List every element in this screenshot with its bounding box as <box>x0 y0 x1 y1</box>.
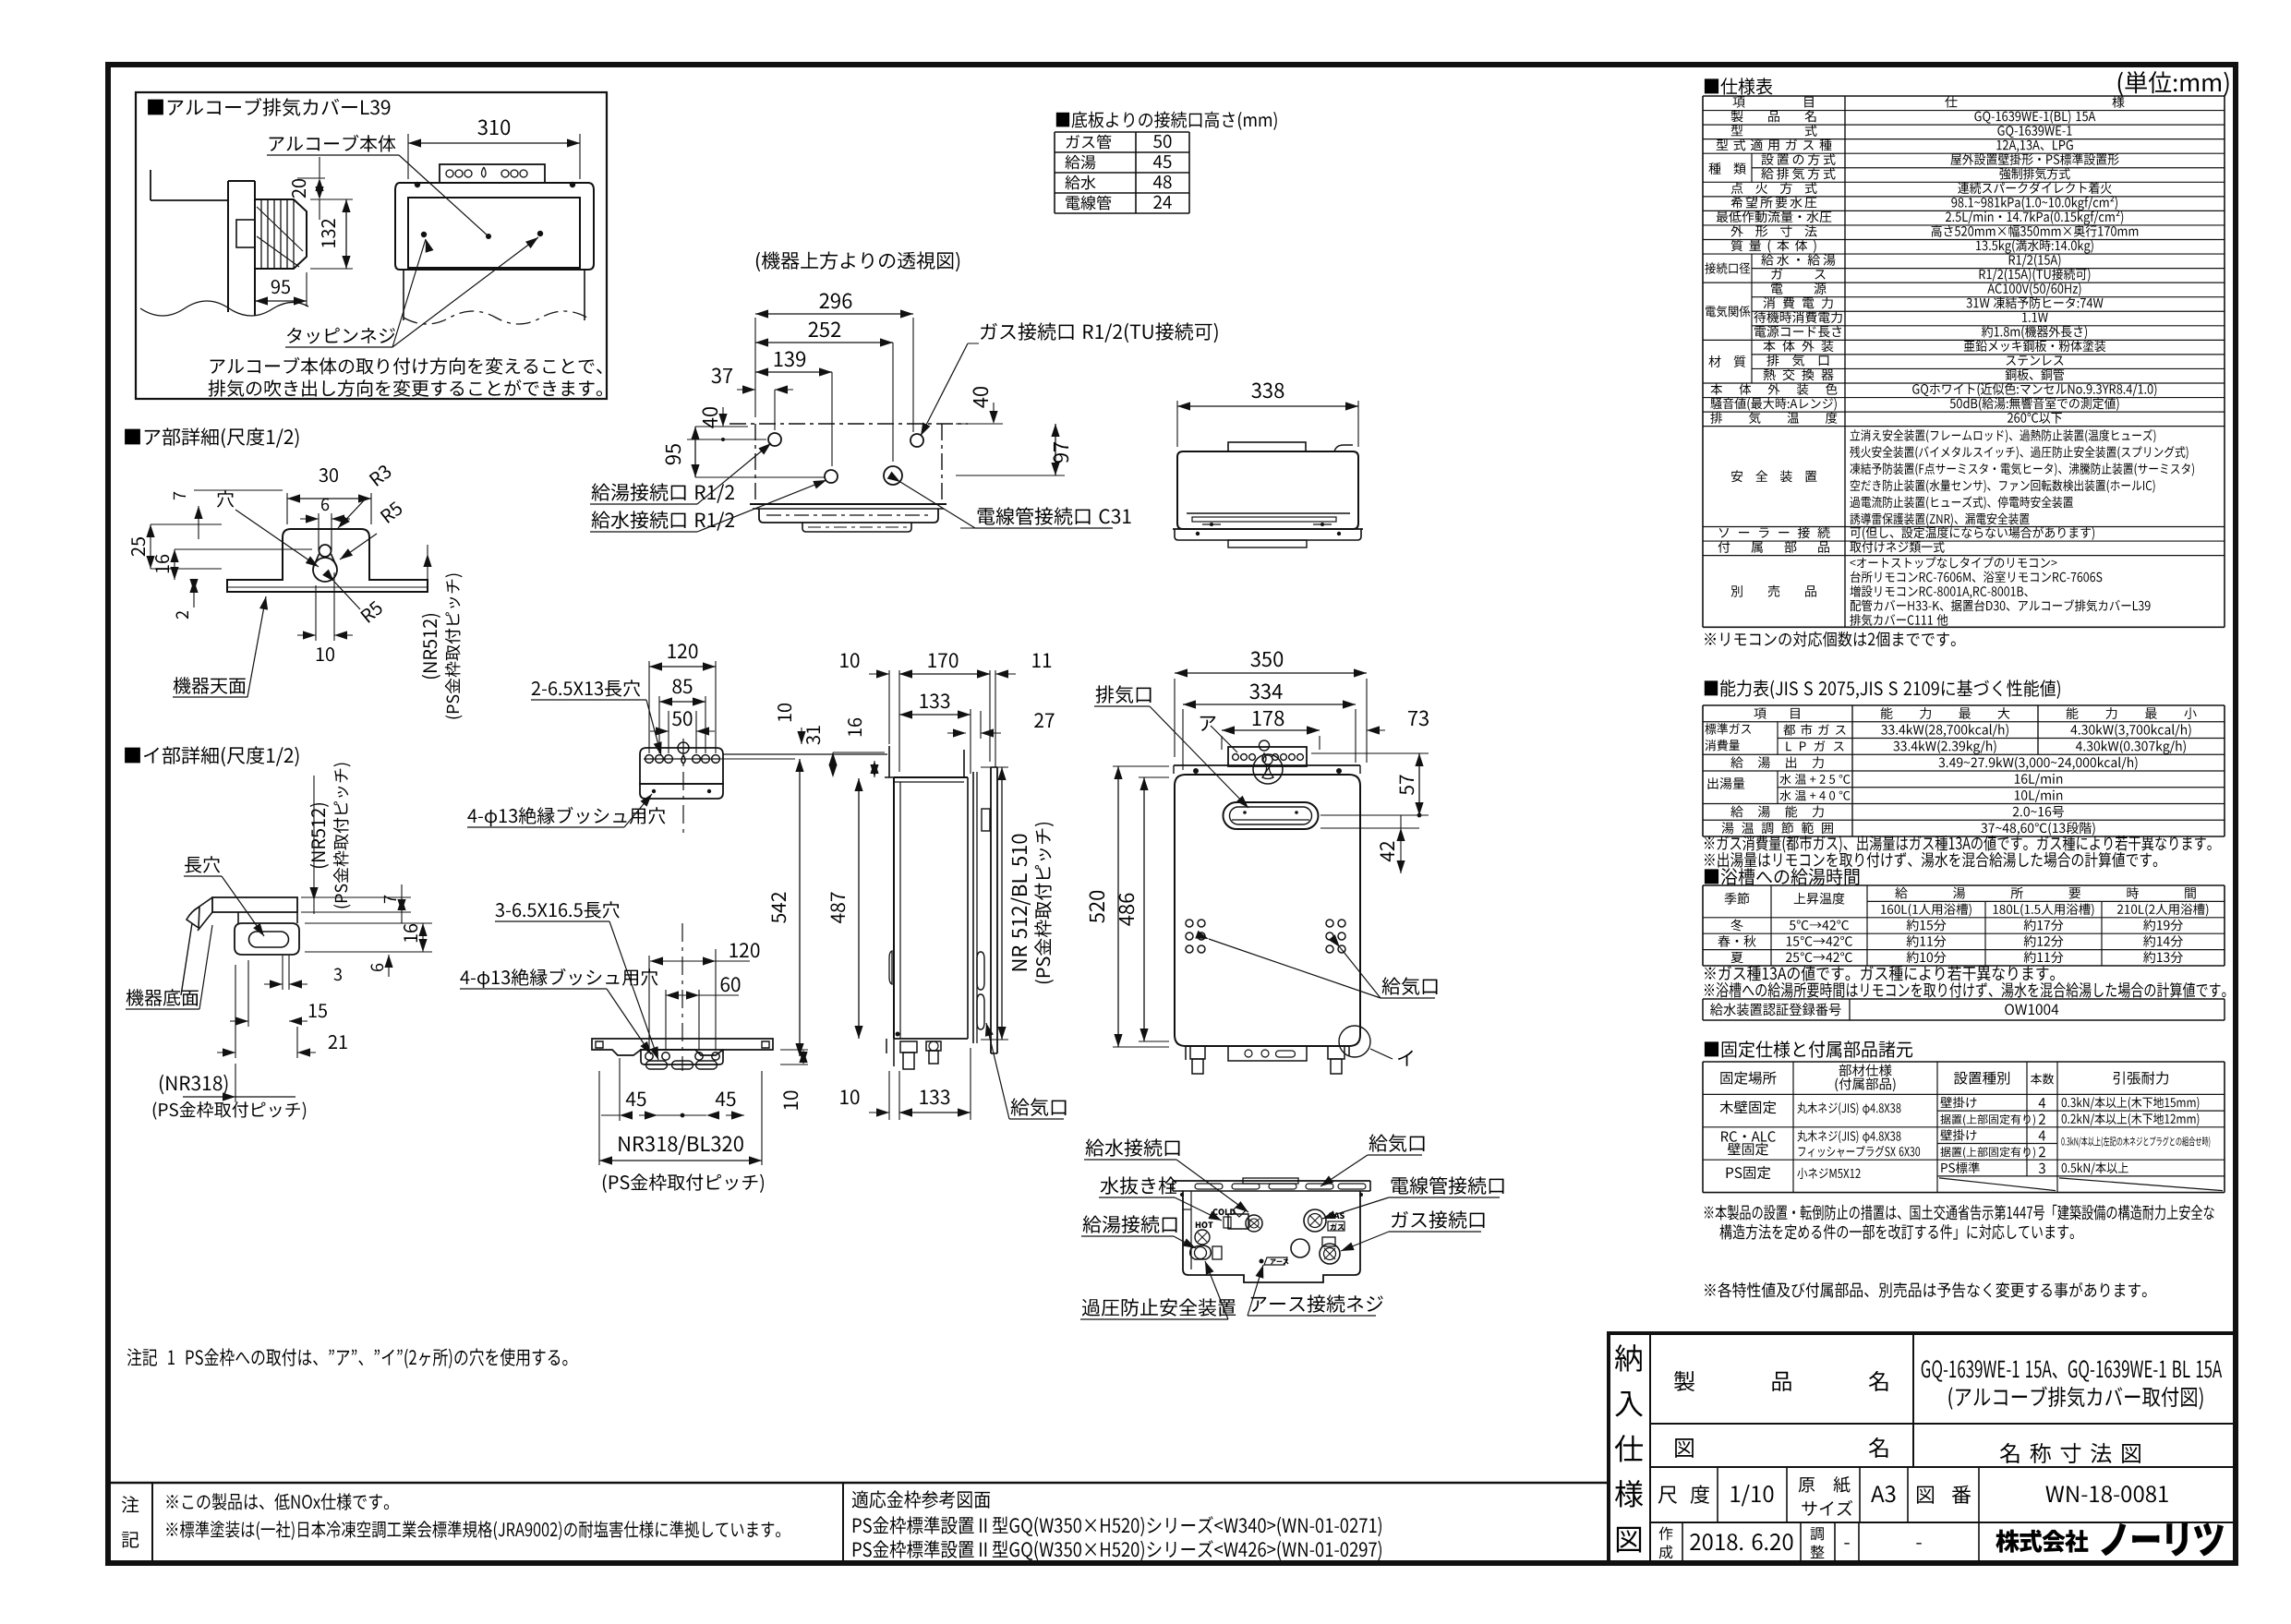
side view NR512 dim <box>981 766 1008 768</box>
dimension 11 side top <box>995 670 996 767</box>
bottom notes text <box>166 1493 389 1510</box>
dimension 45 left <box>619 1058 621 1121</box>
top view body <box>1177 451 1358 529</box>
front view top bracket <box>1228 747 1307 766</box>
dimension 42 <box>1320 827 1419 829</box>
frame reference box text <box>852 1490 990 1509</box>
fitting earth mark <box>1260 1259 1264 1264</box>
dimension 73 <box>1319 736 1320 750</box>
dimension 95 <box>254 272 256 307</box>
front view bottom fittings <box>1185 1046 1187 1060</box>
dimension 16 <box>155 555 169 572</box>
spec table remocon note <box>1705 632 1956 647</box>
title block drawing name <box>1675 1438 1694 1458</box>
note PS frame mounting <box>127 1348 568 1368</box>
fixing table title <box>1705 1041 1912 1057</box>
label hole <box>217 490 234 507</box>
Noritz logo <box>1996 1530 2088 1553</box>
detail B NR512 pitch note rotated <box>310 803 329 868</box>
label alcove body <box>270 135 396 152</box>
front view body <box>1175 775 1360 1046</box>
detail B slot <box>249 932 289 947</box>
dimension NR318/BL320 <box>598 1071 600 1165</box>
dimension 334 <box>1182 709 1184 770</box>
dimension 45 right <box>706 1111 719 1119</box>
label cold water port <box>592 511 734 530</box>
alcove front view body <box>395 183 594 270</box>
bath table <box>1703 884 2225 886</box>
label a mark <box>1200 716 1216 731</box>
bottom view body <box>1183 1191 1360 1282</box>
top view bottom lip <box>1187 512 1350 514</box>
alcove side-section wall lines <box>150 170 151 200</box>
dimension 133 side bottom <box>970 1048 971 1120</box>
label 4-phi13 bush hole lower <box>460 968 657 988</box>
upper bracket centerline <box>682 739 684 836</box>
dimension 133 side <box>970 709 971 774</box>
dimension 486 <box>1139 776 1169 778</box>
label R3 <box>368 463 392 487</box>
side view body <box>894 776 968 778</box>
detail A keyhole slot <box>313 545 337 582</box>
top view 338 dimension <box>1176 401 1178 447</box>
label R5 upper <box>380 501 404 523</box>
dimension 40 left <box>721 438 725 441</box>
side view top hook <box>885 746 894 777</box>
label conduit port <box>978 507 1131 524</box>
title block date row <box>1682 1522 1683 1563</box>
lower bracket plate <box>592 1039 773 1055</box>
spec table <box>1703 95 2225 97</box>
side view flange slots <box>977 952 984 990</box>
hole water <box>825 470 838 483</box>
label 3-6.5X16.5 slot <box>496 901 620 918</box>
bottom view tab rect <box>1243 1178 1298 1184</box>
lower bracket centerline <box>681 923 683 1071</box>
title block scale row <box>1717 1467 1718 1522</box>
dimension 296 <box>754 318 756 417</box>
detail A NR512 pitch note <box>422 614 440 679</box>
unit mm note <box>2118 71 2229 96</box>
dimension 40 right <box>993 403 995 422</box>
title block frame <box>1609 1333 2236 1563</box>
detail B leader from wall <box>181 923 192 995</box>
fitting cold valve <box>1212 1209 1235 1215</box>
capacity table title <box>1705 680 2060 699</box>
dimension 16 side <box>870 761 878 774</box>
dimension 10 side bottom <box>888 1071 890 1120</box>
hole gas <box>910 434 923 447</box>
misc note <box>1705 1282 2147 1298</box>
hole hot water <box>768 433 781 446</box>
dimension 60 lower <box>665 990 667 1051</box>
dimension 30 <box>286 493 288 524</box>
alcove side-section wall body <box>227 181 229 312</box>
top view top tab <box>1228 442 1306 451</box>
label 2-6.5X13 slot <box>532 680 640 696</box>
upper bracket holes <box>644 758 720 760</box>
dimension 16 detail B <box>404 924 417 942</box>
upper bracket plate <box>640 748 723 784</box>
label gas port <box>981 322 1218 343</box>
title block product name <box>1674 1371 1694 1391</box>
top perspective outline dashdot <box>730 423 968 425</box>
dimension 7 <box>174 492 186 499</box>
label 4-phi13 bush hole upper <box>467 807 665 826</box>
dimension 7 detail B <box>384 896 396 903</box>
certification table <box>1703 998 2225 1000</box>
fitting hot valve <box>1196 1221 1213 1228</box>
bottom notes band <box>108 1482 1609 1485</box>
alcove side-section louver <box>255 199 307 269</box>
spec table title <box>1705 78 1773 94</box>
label R5 lower <box>360 600 383 623</box>
top perspective base plate <box>750 503 947 505</box>
fixing table crossed cells <box>1939 1178 2056 1191</box>
dimension 487 <box>858 778 860 1039</box>
dimension 252 <box>755 342 893 343</box>
dimension 3 <box>334 968 342 981</box>
dimension 10 <box>315 585 317 641</box>
dimension 6 <box>318 513 320 550</box>
bath notes <box>1705 966 2055 981</box>
label tapping screw <box>287 328 395 344</box>
capacity notes <box>1705 836 2212 853</box>
connection height table title <box>1056 112 1277 130</box>
alcove side-section break line <box>140 301 308 316</box>
dimension 37 <box>774 390 776 430</box>
fixing note <box>1705 1205 2214 1221</box>
bottom view labels <box>1086 1138 1180 1156</box>
fitting conduit hole <box>1291 1239 1309 1257</box>
front view top edge <box>1174 764 1360 766</box>
fitting gas cock <box>1304 1209 1326 1232</box>
dimension 120 lower <box>648 956 650 1051</box>
dimension 10 side top <box>888 670 890 744</box>
detail A title <box>125 427 298 448</box>
lower bracket slots <box>646 1061 668 1069</box>
front view air holes left <box>1186 920 1193 927</box>
bath table title <box>1705 868 1859 884</box>
detail A bracket profile <box>227 529 428 592</box>
label air intake front <box>1382 977 1438 995</box>
top view lower flange <box>1173 528 1363 530</box>
fixing table <box>1703 1061 2225 1063</box>
label i mark <box>1339 1026 1370 1057</box>
dimension NR318 <box>160 1075 228 1094</box>
dimension 10 rotated side left <box>778 704 791 721</box>
title block vertical label <box>1615 1344 1642 1371</box>
hole conduit <box>884 466 902 485</box>
side view wall flange <box>990 767 992 1053</box>
dimension 170 side top <box>989 670 991 762</box>
alcove front view break line <box>404 311 587 324</box>
alcove front view top bracket <box>440 164 545 183</box>
capacity table <box>1703 704 2225 706</box>
dimension 10 lower bracket <box>780 1049 808 1051</box>
dimension 21 <box>329 1035 347 1049</box>
dimension 310 <box>407 134 409 179</box>
detail B bracket <box>212 897 297 912</box>
dimension 120 upper <box>648 661 650 753</box>
dimension 97 right <box>956 475 1065 476</box>
front view exhaust pill <box>1224 802 1319 829</box>
front view air holes right <box>1326 920 1333 927</box>
dimension 132 <box>310 198 353 200</box>
fitting gas pipe <box>1322 1237 1335 1246</box>
detail B title <box>125 746 298 766</box>
dimension 57 <box>1311 752 1429 754</box>
bottom view top plate <box>1173 1180 1370 1182</box>
connection height table <box>1055 131 1189 133</box>
dimension 85 upper <box>658 696 660 753</box>
side view front slot <box>889 951 892 984</box>
dimension 50 upper <box>668 711 669 753</box>
alcove note text <box>211 357 602 375</box>
side view bottom pipes <box>894 1038 968 1040</box>
side view small latch <box>982 809 990 831</box>
dimension 20 <box>297 177 325 179</box>
dimension 139 <box>755 371 832 373</box>
label exhaust port <box>1096 685 1152 704</box>
alcove cover box title <box>148 98 390 116</box>
dimension 350 <box>1174 679 1176 757</box>
dimension 15 <box>309 1004 327 1017</box>
dimension 178 <box>1221 736 1223 750</box>
top perspective view label <box>756 251 959 271</box>
dimension 520 <box>1113 765 1169 767</box>
dimension 27 side <box>947 732 966 734</box>
label long hole <box>185 856 220 872</box>
dimension 31 side <box>833 752 885 753</box>
label machine bottom face <box>127 989 199 1005</box>
alcove cover box frame <box>136 92 607 399</box>
label hot water port <box>592 483 734 502</box>
dimension 95 left <box>695 426 748 427</box>
dimension 6 detail B <box>371 964 384 971</box>
front view keyhole circle <box>1253 754 1283 784</box>
lower bracket holes <box>645 1053 653 1060</box>
dimension 25 <box>131 537 145 556</box>
dimension 542 <box>687 758 795 760</box>
label machine top face <box>174 677 246 693</box>
label air intake side <box>1011 1098 1067 1116</box>
machine top line to side view <box>723 753 887 755</box>
dimension 2 <box>176 611 189 619</box>
